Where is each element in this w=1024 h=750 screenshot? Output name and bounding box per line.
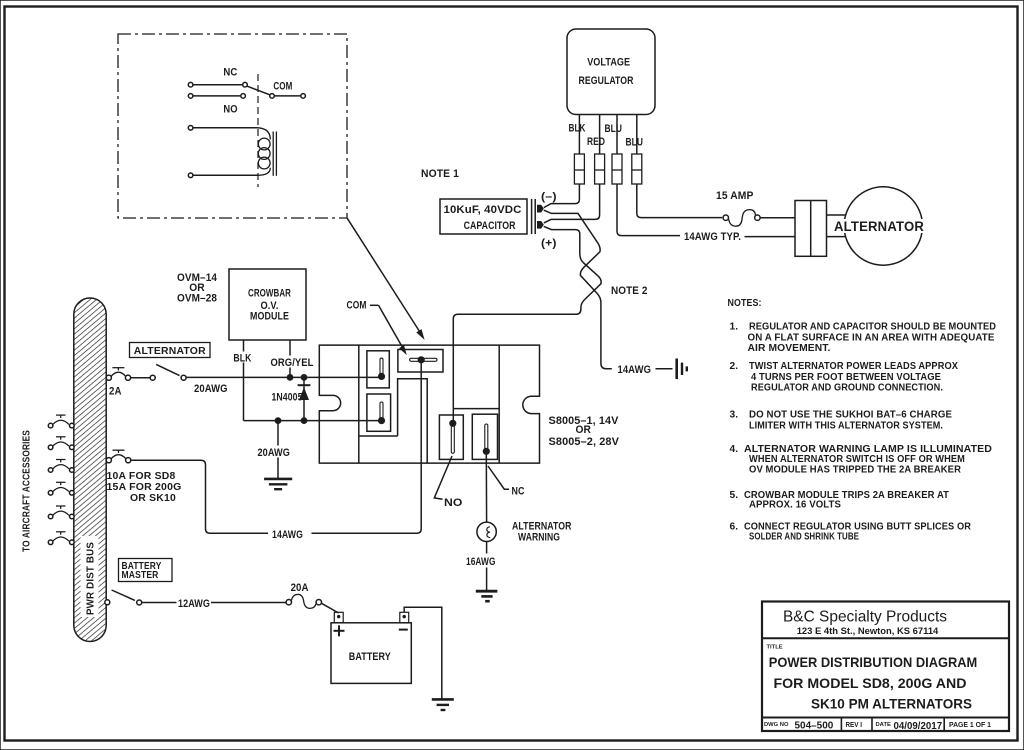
wire cap(-) to BLK splice: [544, 184, 580, 208]
fuse F2 20A: [286, 600, 291, 605]
wire regulator BLU lead 1: [616, 115, 618, 155]
switch S2 battery master: [105, 600, 110, 605]
wire COM stub: [274, 95, 301, 97]
svg-text:NOTES:: NOTES:: [728, 298, 762, 309]
wire switch to fuse: [142, 602, 177, 604]
accessory breaker 3: [48, 460, 74, 473]
svg-text:4.: 4.: [730, 444, 739, 455]
svg-text:ALTERNATOR: ALTERNATOR: [512, 520, 572, 532]
ground G3: [476, 590, 498, 593]
relay coil terminal top: [188, 126, 193, 131]
svg-text:DO NOT USE THE SUKHOI BAT–6 CH: DO NOT USE THE SUKHOI BAT–6 CHARGE: [749, 410, 952, 421]
relay NC contact terminal: [188, 82, 193, 87]
wire COM to 14AWG run: [312, 360, 422, 534]
svg-text:DATE: DATE: [876, 722, 891, 728]
svg-text:REGULATOR AND GROUND CONNECTIO: REGULATOR AND GROUND CONNECTION.: [751, 383, 943, 394]
relay COM pivot terminal: [270, 94, 275, 99]
battery + terminal: [334, 612, 343, 623]
svg-text:MASTER: MASTER: [122, 569, 159, 581]
wire battery - to ground: [404, 607, 442, 698]
breaker CB2 10A/15A: [106, 458, 111, 463]
relay coil core lines: [272, 132, 274, 176]
label ORG/YEL pin: [270, 356, 315, 368]
svg-text:BLU: BLU: [605, 123, 623, 135]
wire NO contact: [193, 95, 241, 97]
svg-text:CAPACITOR: CAPACITOR: [464, 220, 516, 232]
contactor COM terminal box: [398, 350, 443, 373]
wire coil bottom: [193, 174, 258, 176]
accessory breaker 2: [48, 437, 74, 450]
alternator G1 body: [844, 187, 922, 265]
svg-text:OV MODULE HAS TRIPPED THE 2A B: OV MODULE HAS TRIPPED THE 2A BREAKER: [749, 464, 961, 475]
svg-text:ALTERNATOR: ALTERNATOR: [134, 345, 206, 357]
butt splice on BLU 1: [612, 154, 622, 184]
svg-text:20A: 20A: [291, 582, 309, 594]
leader arrow from relay box to contactor COM: [347, 218, 421, 334]
wire regulator BLK lead: [578, 115, 580, 155]
svg-text:BATTERY: BATTERY: [349, 651, 391, 663]
svg-text:SK10 PM ALTERNATORS: SK10 PM ALTERNATORS: [811, 696, 972, 712]
wire crowbar BLK pin down to lower bus wire: [243, 340, 245, 421]
diode D1 1N4005: [303, 377, 305, 420]
svg-text:NO: NO: [223, 104, 237, 116]
svg-text:DWG NO: DWG NO: [764, 722, 789, 728]
svg-text:PAGE 1 OF 1: PAGE 1 OF 1: [949, 722, 991, 729]
svg-text:20AWG: 20AWG: [258, 447, 291, 459]
svg-text:NOTE 2: NOTE 2: [611, 285, 648, 297]
svg-text:ORG/YEL: ORG/YEL: [271, 357, 314, 369]
svg-text:VOLTAGE: VOLTAGE: [587, 57, 630, 69]
title block frame: [762, 602, 1009, 732]
svg-text:14AWG: 14AWG: [272, 529, 303, 541]
svg-text:NC: NC: [512, 486, 525, 498]
svg-text:123 E 4th St., Newton, KS 6711: 123 E 4th St., Newton, KS 67114: [797, 626, 939, 637]
svg-text:15 AMP: 15 AMP: [716, 190, 754, 202]
relay COM outer terminal: [301, 94, 306, 99]
crowbar OV module U2: [229, 269, 306, 340]
svg-text:OR: OR: [576, 424, 592, 436]
svg-text:TO AIRCRAFT ACCESSORIES: TO AIRCRAFT ACCESSORIES: [21, 430, 33, 552]
title block divider: [762, 637, 1009, 639]
svg-text:NOTE 1: NOTE 1: [421, 168, 459, 180]
butt splice on BLK: [574, 154, 584, 184]
svg-text:14AWG: 14AWG: [618, 364, 652, 376]
ALTERNATOR switch label box: [130, 343, 211, 358]
wire 14AWG left segment to breaker: [131, 460, 268, 533]
BATTERY MASTER label box: [119, 559, 173, 582]
wire NC contact: [193, 84, 243, 86]
svg-text:OR SK10: OR SK10: [130, 492, 176, 504]
fuse F1 15A: [723, 215, 728, 220]
contactor internal shelf: [453, 408, 499, 410]
relay NO contact terminal: [188, 94, 193, 99]
breaker CB1 2A: [106, 375, 111, 380]
svg-text:TITLE: TITLE: [767, 645, 783, 651]
contactor S8005 outline with mounting notches: [319, 345, 539, 463]
butt splice on BLU 2: [632, 154, 642, 184]
NO label and leader: [434, 456, 452, 499]
capacitor negative stud: [537, 205, 544, 213]
relay coil terminal bottom: [188, 173, 193, 178]
junction dot diode anode: [301, 417, 308, 424]
contactor internal step: [398, 379, 428, 463]
junction dot diode cathode: [301, 374, 308, 381]
svg-text:B&C Specialty Products: B&C Specialty Products: [783, 609, 947, 626]
svg-text:CROWBAR: CROWBAR: [248, 288, 291, 300]
wire to ground stub: [656, 368, 673, 370]
svg-text:FOR MODEL SD8, 200G AND: FOR MODEL SD8, 200G AND: [774, 675, 967, 691]
svg-text:04/09/2017: 04/09/2017: [894, 720, 943, 732]
svg-text:3.: 3.: [730, 410, 739, 421]
svg-text:(+): (+): [541, 238, 557, 250]
wire regulator BLU lead 2: [636, 115, 638, 155]
relay K1 mechanical link (dashed): [257, 74, 259, 187]
butt splice on RED: [595, 154, 605, 184]
wire connector to alternator pin 1: [827, 214, 847, 216]
relay NC fixed contact: [243, 82, 248, 87]
voltage regulator U1: [567, 29, 655, 115]
wire twisted lead B from cap(+) to contactor NO (note 2 twist): [453, 226, 601, 345]
wire twisted lead A from cap(-) to ground (note 2 twist): [544, 210, 612, 369]
svg-text:WHEN ALTERNATOR SWITCH IS OFF: WHEN ALTERNATOR SWITCH IS OFF OR WHEM: [749, 454, 965, 465]
relay armature arm: [247, 86, 270, 95]
battery - terminal: [400, 612, 409, 623]
wire fuse to battery +: [321, 603, 338, 613]
battery - mark: [399, 629, 408, 631]
svg-text:AIR MOVEMENT.: AIR MOVEMENT.: [748, 343, 831, 354]
ground G4: [432, 698, 454, 701]
contactor internal divider left: [358, 345, 360, 463]
wire fuse to connector: [760, 217, 795, 219]
wire to 20A fuse: [211, 602, 286, 604]
svg-text:OVM–28: OVM–28: [177, 293, 217, 305]
svg-text:TWIST ALTERNATOR POWER LEADS A: TWIST ALTERNATOR POWER LEADS APPROX: [749, 361, 958, 372]
wire cap(+) to RED splice: [544, 184, 600, 223]
junction dot 20AWG ground tap: [275, 417, 282, 424]
wire NC to warning lamp: [485, 451, 487, 522]
accessory breaker 5: [48, 506, 74, 519]
svg-text:1N4005: 1N4005: [272, 392, 303, 404]
svg-text:COM: COM: [347, 300, 367, 312]
svg-text:S8005–2, 28V: S8005–2, 28V: [549, 436, 620, 448]
battery + mark: [334, 630, 345, 632]
wire switch to contactor coil + (upper wire): [186, 376, 381, 378]
svg-text:NC: NC: [223, 67, 237, 79]
svg-text:POWER DISTRIBUTION DIAGRAM: POWER DISTRIBUTION DIAGRAM: [769, 654, 978, 670]
relay coil winding: [258, 128, 270, 140]
svg-text:COM: COM: [273, 81, 292, 93]
wire connector to alternator pin 2: [827, 236, 847, 238]
svg-text:6.: 6.: [730, 521, 739, 532]
accessory breaker 1: [48, 415, 74, 428]
svg-text:20AWG: 20AWG: [194, 383, 228, 395]
wire lamp to ground: [486, 542, 488, 554]
wire BLU1 to lower alternator lead: [617, 184, 680, 236]
alternator connector block: [795, 201, 827, 257]
svg-text:BLU: BLU: [626, 137, 644, 149]
svg-text:2.: 2.: [730, 361, 739, 372]
svg-text:REGULATOR AND CAPACITOR SHOULD: REGULATOR AND CAPACITOR SHOULD BE MOUNTE…: [749, 322, 996, 333]
svg-text:APPROX. 16 VOLTS: APPROX. 16 VOLTS: [749, 500, 841, 511]
wire ground tap down: [277, 421, 279, 478]
svg-text:2A: 2A: [109, 385, 122, 397]
ground G2: [264, 478, 292, 481]
capacitor positive stud: [537, 221, 544, 229]
accessory breaker 6: [48, 532, 74, 545]
svg-text:RED: RED: [587, 136, 605, 148]
label 20AWG ground lead: [257, 446, 292, 458]
relay K1 dashed enclosure: [118, 34, 347, 218]
contactor NC terminal box: [472, 414, 497, 459]
svg-text:1.: 1.: [730, 322, 739, 333]
svg-text:10KuF, 40VDC: 10KuF, 40VDC: [444, 204, 522, 216]
contactor internal divider right: [498, 345, 500, 463]
svg-text:WARNING: WARNING: [518, 532, 560, 544]
svg-text:MODULE: MODULE: [250, 310, 289, 322]
accessory breaker 4: [48, 482, 74, 495]
svg-text:16AWG: 16AWG: [466, 556, 496, 568]
battery BT1: [331, 623, 411, 684]
wire coil top: [193, 127, 258, 129]
svg-text:PWR DIST BUS: PWR DIST BUS: [85, 542, 97, 615]
svg-text:BLK: BLK: [569, 123, 586, 135]
contactor coil terminal box upper: [367, 351, 389, 388]
wire breaker to switch: [131, 377, 151, 379]
svg-text:REGULATOR: REGULATOR: [579, 75, 634, 87]
title block bottom row: [762, 717, 1009, 719]
svg-text:NO: NO: [444, 497, 463, 509]
svg-text:SOLDER AND SHRINK TUBE: SOLDER AND SHRINK TUBE: [749, 531, 859, 542]
svg-text:LIMITER WITH THIS ALTERNATOR S: LIMITER WITH THIS ALTERNATOR SYSTEM.: [749, 421, 943, 432]
wire NO terminal up (from twist B): [452, 345, 454, 423]
wire lower (coil return): [244, 420, 382, 422]
svg-text:5.: 5.: [730, 490, 739, 501]
power distribution bus bar: [74, 298, 106, 642]
label BLK pin: [232, 352, 253, 363]
wire BLU2 to upper alternator lead: [637, 184, 722, 218]
capacitor C1 end plates: [531, 199, 533, 234]
wire regulator RED lead: [599, 115, 601, 155]
ground G1 (sideways ground symbol): [675, 359, 678, 380]
svg-text:REV I: REV I: [846, 722, 863, 729]
svg-text:ALTERNATOR: ALTERNATOR: [834, 219, 924, 234]
svg-text:4 TURNS PER FOOT BETWEEN VOLTA: 4 TURNS PER FOOT BETWEEN VOLTAGE: [751, 372, 941, 383]
switch S1 ALTERNATOR: [150, 375, 155, 380]
svg-text:12AWG: 12AWG: [178, 598, 210, 610]
label PWR DIST BUS (rotated): [81, 536, 99, 617]
wire crowbar ORG/YEL pin down to upper wire: [289, 340, 291, 377]
junction dot ORG/YEL: [287, 374, 294, 381]
NC label and leader: [488, 466, 509, 489]
svg-text:(–): (–): [541, 191, 557, 203]
wire lower lead to connector: [745, 236, 796, 238]
svg-text:14AWG TYP.: 14AWG TYP.: [684, 231, 741, 243]
contactor NO terminal box: [439, 415, 463, 459]
svg-text:504–500: 504–500: [795, 720, 834, 732]
relay NO fixed contact: [241, 94, 246, 99]
warning lamp DS1: [477, 522, 496, 541]
svg-text:ON A FLAT SURFACE IN AN AREA W: ON A FLAT SURFACE IN AN AREA WITH ADEQUA…: [748, 332, 995, 343]
contactor coil terminal box lower: [367, 394, 391, 431]
svg-text:BLK: BLK: [233, 353, 251, 365]
capacitor C1 body: [440, 199, 527, 234]
